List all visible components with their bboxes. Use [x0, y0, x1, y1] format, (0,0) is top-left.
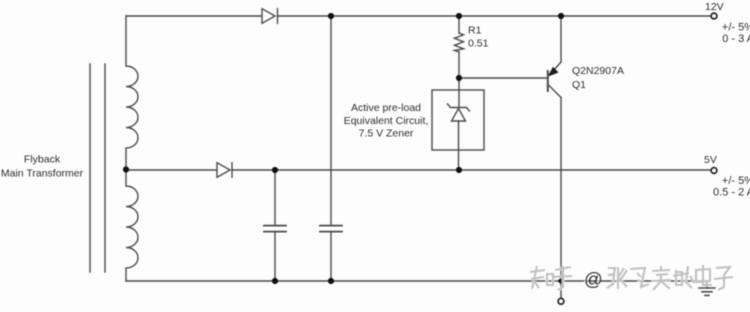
wire zener branch top — [458, 78, 460, 108]
transformer core line 2 — [104, 64, 106, 272]
svg-text:0 - 3 A: 0 - 3 A — [722, 33, 750, 45]
wire R1 top stub — [458, 16, 460, 33]
node 5V rail / zener junction — [456, 167, 462, 173]
svg-text:Q2N2907A: Q2N2907A — [572, 65, 624, 77]
node bottom rail / return junction — [558, 278, 563, 283]
diode D-mid (5V rectifier) — [217, 163, 232, 178]
wire 5V filter-cap branch (top) — [274, 170, 276, 225]
wire R1 bottom stub — [458, 52, 460, 78]
wire bottom rail — [126, 280, 707, 282]
ground symbol — [699, 281, 715, 295]
label active pre-load text — [344, 102, 429, 140]
capacitor C2 (12V filter) — [320, 226, 342, 232]
collector diagonal — [549, 85, 562, 98]
svg-text:12V: 12V — [705, 1, 724, 13]
wire top rail left segment — [126, 15, 262, 17]
emitter diagonal with arrow — [550, 62, 562, 75]
svg-text:7.5 V Zener: 7.5 V Zener — [359, 128, 414, 140]
capacitor C1 (5V filter) — [264, 226, 286, 232]
svg-text:Equivalent Circuit,: Equivalent Circuit, — [344, 115, 429, 127]
node top rail / C2 junction — [328, 13, 334, 19]
svg-text:+/- 5%: +/- 5% — [722, 175, 750, 187]
wire top rail right segment — [278, 15, 712, 17]
wire 12V filter-cap branch (bottom) — [330, 232, 332, 281]
wire 12V filter-cap branch (top) — [330, 16, 332, 225]
transformer winding upper (secondary, 12V) — [126, 16, 138, 170]
svg-text:+/- 5%: +/- 5% — [722, 22, 750, 34]
svg-text:Q1: Q1 — [572, 79, 586, 91]
terminal return output — [558, 298, 564, 304]
svg-text:Flyback: Flyback — [24, 154, 61, 166]
svg-text:Main Transformer: Main Transformer — [1, 168, 84, 180]
wire zener branch bottom — [458, 121, 460, 170]
transformer winding lower (secondary, 5V) — [126, 170, 138, 281]
node top rail / Q1 emitter junction — [558, 13, 564, 19]
diode D-top (12V rectifier) — [262, 9, 278, 24]
emitter wire from 12V rail — [560, 16, 562, 62]
wire output return stub — [560, 281, 562, 298]
transformer core line 1 — [89, 64, 91, 272]
wire 5V filter-cap branch (bottom) — [274, 232, 276, 281]
svg-text:5V: 5V — [704, 154, 717, 166]
box active pre-load equivalent circuit — [432, 90, 484, 150]
base bar — [547, 71, 549, 91]
svg-text:0.5 - 2 A: 0.5 - 2 A — [713, 187, 750, 199]
collector wire down — [560, 98, 562, 282]
svg-text:0.51: 0.51 — [468, 38, 489, 50]
node transformer center tap — [123, 166, 129, 172]
node bottom rail / C2 junction — [328, 278, 334, 284]
svg-text:@: @ — [584, 269, 603, 290]
node bottom rail / C1 junction — [272, 278, 278, 284]
node 5V rail / C1 junction — [272, 167, 278, 173]
terminal 12V output — [711, 13, 717, 19]
node R1 bottom / base / zener junction — [456, 75, 462, 81]
wire 5V rail left segment — [126, 169, 217, 171]
svg-text:R1: R1 — [468, 25, 482, 37]
node top rail / R1 junction — [456, 13, 462, 19]
svg-text:Active pre-load: Active pre-load — [351, 102, 421, 114]
terminal 5V output — [711, 168, 717, 174]
transistor Q1 (PNP 2N2907) — [548, 16, 562, 281]
zener diode D-zener 7.5V — [448, 104, 470, 121]
resistor R1 — [455, 33, 464, 52]
label Flyback Main Transformer — [1, 154, 84, 180]
wire base wire (R1 junction to Q1 base) — [459, 77, 548, 79]
wire 5V rail right segment — [232, 169, 711, 171]
